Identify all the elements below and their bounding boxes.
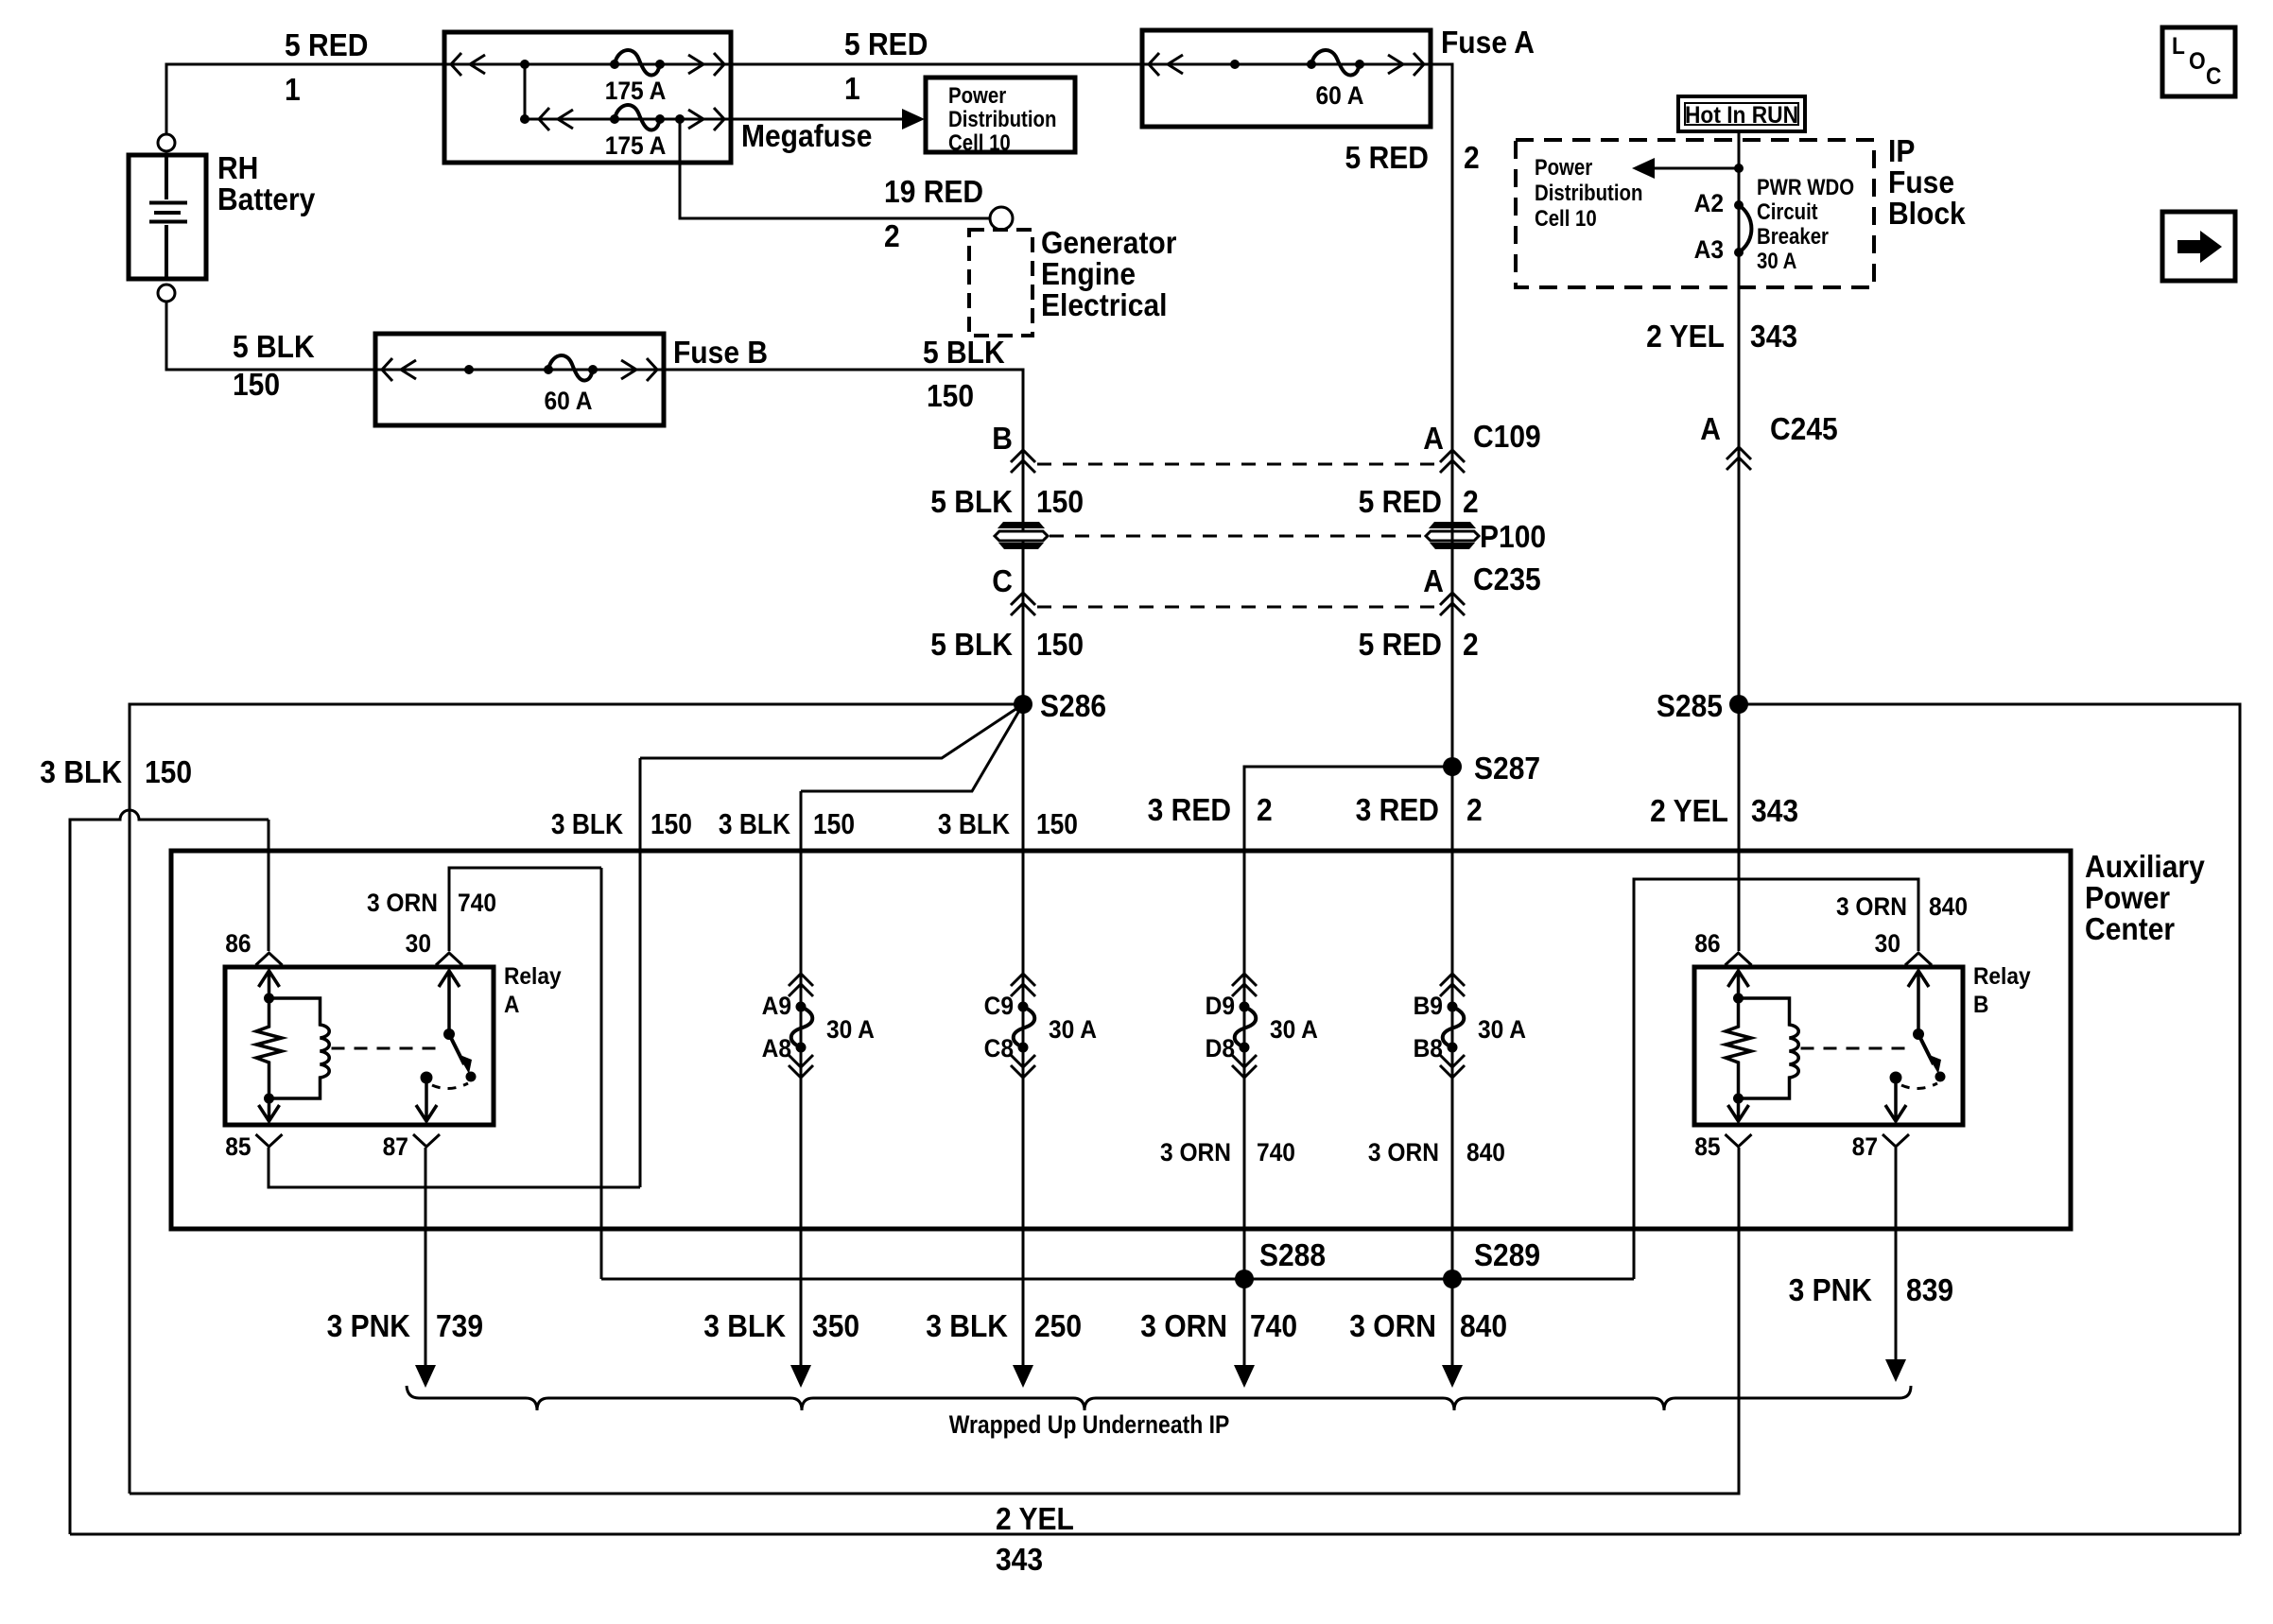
wire relay A pin 85 to branch 1 — [269, 1148, 640, 1187]
svg-text:5 RED: 5 RED — [285, 27, 368, 63]
megafuse row2 right arrowhead — [688, 110, 703, 129]
Fuse A internal wire — [1142, 63, 1431, 66]
svg-text:150: 150 — [1036, 484, 1084, 520]
svg-text:3 BLK: 3 BLK — [551, 808, 623, 840]
svg-text:B8: B8 — [1414, 1035, 1443, 1063]
Fuse B internal wire — [375, 369, 664, 371]
grommet P100 dashed tie — [1050, 535, 1424, 538]
svg-text:A3: A3 — [1694, 236, 1724, 264]
megafuse row1 right arrowhead — [688, 55, 703, 74]
connector C109 pin B caret — [1011, 450, 1035, 473]
relay B switch dashed throw arc — [1901, 1083, 1937, 1089]
svg-text:3 BLK: 3 BLK — [40, 754, 122, 790]
IP junction dot — [1734, 164, 1744, 173]
svg-text:150: 150 — [813, 808, 855, 840]
svg-text:839: 839 — [1906, 1272, 1953, 1308]
Fuse B left caret — [382, 358, 392, 381]
battery symbol — [149, 155, 187, 279]
svg-text:1: 1 — [285, 72, 301, 108]
wire 3 ORN 740 output — [1243, 1279, 1246, 1371]
svg-text:19 RED: 19 RED — [884, 174, 983, 210]
svg-text:5 RED: 5 RED — [1359, 484, 1442, 520]
relay B resistor — [1726, 998, 1751, 1098]
connector C235 pin C caret — [1011, 593, 1035, 615]
svg-text:3 ORN: 3 ORN — [1368, 1139, 1439, 1166]
Fuse B box — [375, 334, 664, 425]
battery positive terminal — [158, 134, 175, 151]
svg-text:5 RED: 5 RED — [1345, 140, 1429, 176]
arrowhead 3 PNK 739 — [415, 1365, 436, 1388]
relay B coil — [1739, 998, 1799, 1098]
wire 2 YEL to relay B pin 86 — [1738, 704, 1741, 951]
arrowhead to power distribution (IP) — [1632, 158, 1655, 179]
arrowhead 3 BLK 350 — [790, 1365, 811, 1388]
Fuse A left caret — [1149, 53, 1159, 76]
Fuse A junction — [1230, 60, 1240, 69]
megafuse row2 left arrowhead — [558, 110, 573, 129]
svg-text:A: A — [1700, 411, 1721, 447]
svg-text:S287: S287 — [1474, 751, 1540, 786]
svg-text:30 A: 30 A — [1478, 1016, 1526, 1044]
connector C109 pin A caret — [1440, 450, 1465, 473]
connector C235 dashed tie — [1037, 606, 1438, 609]
svg-text:5 BLK: 5 BLK — [923, 335, 1005, 371]
relay A switch common contact — [421, 1072, 433, 1084]
battery negative terminal — [158, 285, 175, 302]
Fuse A right arrowhead — [1388, 55, 1403, 74]
wire 3 ORN 740 to relay A pin 30 — [449, 868, 601, 951]
svg-text:85: 85 — [225, 1133, 251, 1161]
svg-text:175 A: 175 A — [605, 78, 667, 105]
svg-text:150: 150 — [927, 378, 974, 414]
arrowhead 3 ORN 740 — [1234, 1365, 1255, 1388]
svg-text:B: B — [992, 421, 1013, 457]
svg-text:30: 30 — [1875, 930, 1900, 958]
arrow reference box — [2162, 212, 2235, 281]
svg-text:D9: D9 — [1206, 993, 1235, 1020]
svg-text:Relay: Relay — [1973, 963, 2031, 990]
relay B pin 87 caret — [1883, 1134, 1909, 1147]
svg-text:Megafuse: Megafuse — [741, 118, 872, 154]
svg-text:B: B — [1973, 992, 1988, 1018]
megafuse fuse 1 175 A — [610, 50, 665, 76]
wire battery positive to megafuse — [166, 64, 444, 134]
svg-text:C8: C8 — [984, 1035, 1014, 1063]
megafuse row1 junction — [520, 60, 529, 69]
Auxiliary Power Center box — [171, 851, 2071, 1229]
svg-text:840: 840 — [1466, 1139, 1505, 1166]
wire 5 RED 2 from Fuse A — [1431, 64, 1452, 448]
svg-text:C: C — [2206, 63, 2221, 90]
Fuse A right caret — [1414, 53, 1424, 76]
svg-text:250: 250 — [1034, 1308, 1082, 1344]
svg-text:Fuse A: Fuse A — [1441, 25, 1535, 60]
relay B pin 30 caret — [1905, 953, 1932, 965]
Fuse A box — [1142, 30, 1431, 127]
relay B box — [1694, 967, 1963, 1125]
svg-text:739: 739 — [436, 1308, 483, 1344]
megafuse internal tie wire — [524, 64, 527, 119]
wire bottom rail 2 YEL — [70, 1533, 2240, 1536]
generator terminal ring — [990, 207, 1013, 230]
svg-text:30: 30 — [406, 930, 431, 958]
svg-text:740: 740 — [458, 890, 496, 917]
relay B pin 87 arrow — [1885, 1078, 1906, 1121]
breaker terminal A2 — [1734, 200, 1744, 210]
svg-text:A2: A2 — [1694, 190, 1724, 217]
circuit breaker C9/C8 30 A — [984, 974, 1097, 1078]
svg-text:3 ORN: 3 ORN — [1349, 1308, 1436, 1344]
svg-text:S288: S288 — [1259, 1237, 1326, 1273]
relay B coil-switch dashed link — [1801, 1047, 1908, 1050]
svg-text:2: 2 — [1466, 792, 1483, 828]
arrow reference glyph — [2178, 231, 2222, 263]
svg-text:2: 2 — [884, 218, 900, 254]
splice S287 — [1443, 757, 1462, 776]
relay A pin 87 arrow — [416, 1078, 437, 1121]
svg-text:P100: P100 — [1480, 519, 1546, 555]
wire 5 BLK 150 to S286 — [1022, 605, 1025, 704]
svg-text:C9: C9 — [984, 993, 1014, 1020]
relay A switch arm — [449, 1034, 464, 1064]
megafuse row2 junction right — [675, 114, 685, 124]
Fuse A element 60 A — [1307, 50, 1364, 76]
svg-text:S285: S285 — [1657, 688, 1723, 724]
generator dashed box — [969, 230, 1032, 336]
megafuse row2 right caret — [714, 108, 724, 130]
wire hot in run to circuit breaker — [1738, 131, 1741, 448]
megafuse row1 left caret — [451, 53, 461, 76]
wire relay A pin 87 drop — [425, 1148, 427, 1371]
svg-text:2: 2 — [1463, 627, 1479, 663]
svg-text:A: A — [1423, 563, 1444, 599]
wire 5 RED 2 to S287 — [1451, 605, 1454, 767]
svg-text:2: 2 — [1257, 792, 1273, 828]
arrowhead 3 BLK 250 — [1013, 1365, 1033, 1388]
svg-text:85: 85 — [1694, 1133, 1720, 1161]
wire megafuse to Power Distribution — [731, 118, 908, 121]
svg-text:3 ORN: 3 ORN — [367, 890, 438, 917]
svg-text:5 BLK: 5 BLK — [233, 329, 315, 365]
svg-text:60 A: 60 A — [544, 388, 592, 415]
arrowhead 3 ORN 840 — [1442, 1365, 1463, 1388]
relay B pin 86 caret — [1726, 953, 1752, 965]
megafuse row2 wire — [525, 118, 731, 121]
svg-text:3 ORN: 3 ORN — [1140, 1308, 1227, 1344]
relay A coil-switch dashed link — [332, 1047, 439, 1050]
Fuse B right arrowhead — [621, 360, 636, 379]
svg-text:5 RED: 5 RED — [1359, 627, 1442, 663]
wire 5 RED 1 megafuse to Fuse A — [731, 63, 1142, 66]
relay A pin 87 caret — [413, 1134, 440, 1147]
svg-text:Fuse B: Fuse B — [673, 335, 768, 371]
svg-text:740: 740 — [1250, 1308, 1297, 1344]
svg-text:343: 343 — [1751, 793, 1798, 829]
svg-text:5 RED: 5 RED — [844, 26, 928, 62]
svg-text:Hot In RUN: Hot In RUN — [1685, 102, 1798, 129]
svg-text:350: 350 — [812, 1308, 859, 1344]
PWR WDO circuit breaker arc — [1739, 205, 1751, 252]
svg-text:60 A: 60 A — [1315, 82, 1363, 110]
relay B switch common contact — [1890, 1072, 1902, 1084]
grommet P100 left — [995, 522, 1048, 549]
svg-text:2 YEL: 2 YEL — [1650, 793, 1728, 829]
Hot In RUN box — [1678, 96, 1805, 131]
wire 3 BLK 250 drop (C9 column) — [1022, 704, 1025, 1371]
svg-text:150: 150 — [145, 754, 192, 790]
megafuse row2 left caret — [539, 108, 549, 130]
arrowhead into Power Distribution — [902, 109, 925, 130]
svg-text:30 A: 30 A — [826, 1016, 875, 1044]
svg-text:A: A — [1423, 421, 1444, 457]
svg-text:840: 840 — [1460, 1308, 1507, 1344]
diagonal S286 to 3 BLK branch 2 — [801, 704, 1023, 791]
svg-text:3 ORN: 3 ORN — [1836, 893, 1907, 921]
relay A pin 85 caret — [256, 1134, 283, 1147]
svg-text:30 A: 30 A — [1270, 1016, 1318, 1044]
svg-text:150: 150 — [1036, 627, 1084, 663]
svg-text:87: 87 — [383, 1133, 408, 1161]
wire 19 RED 2 to generator — [680, 119, 989, 218]
wire 5 BLK 150 from Fuse B — [664, 370, 1023, 448]
grommet P100 right — [1426, 522, 1479, 549]
svg-text:150: 150 — [233, 367, 280, 403]
svg-text:Relay: Relay — [504, 963, 562, 990]
relay A switch pin 30 arrow — [439, 971, 460, 1034]
wire relay B pin 87 drop — [1895, 1148, 1898, 1365]
svg-text:S289: S289 — [1474, 1237, 1540, 1273]
relay B switch arm — [1918, 1034, 1934, 1064]
svg-text:1: 1 — [844, 71, 860, 107]
wire 3 ORN 740 riser (left) — [600, 868, 603, 1279]
wire 3 ORN 840 output — [1451, 1279, 1454, 1371]
relay A coil pin 85 arrow — [259, 1098, 280, 1121]
wire 2 YEL left drop with hop — [70, 810, 269, 1534]
svg-text:O: O — [2189, 48, 2206, 75]
circuit breaker A9/A8 30 A — [762, 974, 875, 1078]
relay A pin 30 caret — [436, 953, 462, 965]
circuit breaker B9/B8 30 A — [1414, 974, 1526, 1078]
splice S285 — [1729, 695, 1748, 714]
svg-text:2 YEL: 2 YEL — [996, 1501, 1074, 1537]
svg-text:S286: S286 — [1040, 688, 1106, 724]
svg-text:343: 343 — [1750, 319, 1797, 354]
connector C235 pin A caret — [1440, 593, 1465, 615]
svg-text:Battery: Battery — [217, 181, 316, 217]
relay A pin 86 caret — [256, 953, 283, 965]
svg-text:343: 343 — [996, 1542, 1043, 1578]
battery RH box — [129, 155, 206, 279]
megafuse fuse 2 175 A — [610, 105, 665, 130]
connector C109 dashed tie — [1037, 463, 1438, 466]
wire splice rail S288-S289 — [601, 1278, 1634, 1281]
svg-text:3 BLK: 3 BLK — [719, 808, 790, 840]
svg-text:A9: A9 — [762, 993, 791, 1020]
svg-text:C109: C109 — [1473, 419, 1541, 455]
Fuse B left arrowhead — [401, 360, 416, 379]
relay A box — [225, 967, 494, 1125]
breaker terminal A3 — [1734, 248, 1744, 257]
circuit breaker D9/D8 30 A — [1206, 974, 1318, 1078]
svg-text:86: 86 — [225, 930, 251, 958]
megafuse row2 junction left — [520, 114, 529, 124]
arrowhead 3 PNK 839 — [1885, 1359, 1906, 1382]
relay B pin 85 caret — [1726, 1134, 1752, 1147]
svg-text:Wrapped Up Underneath IP: Wrapped Up Underneath IP — [949, 1410, 1230, 1439]
svg-text:A: A — [504, 992, 519, 1018]
wire S286 to left frame — [130, 704, 1023, 1494]
wire 5 RED 2 A to A — [1451, 448, 1454, 605]
IP fuse block dashed box — [1516, 140, 1874, 287]
svg-text:3 RED: 3 RED — [1148, 792, 1231, 828]
Fuse B junction — [464, 365, 474, 374]
svg-text:3 BLK: 3 BLK — [938, 808, 1010, 840]
svg-text:86: 86 — [1694, 930, 1720, 958]
megafuse row1 right caret — [714, 53, 724, 76]
megafuse row1 wire — [444, 63, 731, 66]
svg-text:150: 150 — [1036, 808, 1078, 840]
connector C245 caret — [1726, 447, 1751, 470]
svg-text:87: 87 — [1852, 1133, 1878, 1161]
svg-text:740: 740 — [1257, 1139, 1295, 1166]
svg-text:L: L — [2172, 33, 2185, 60]
svg-text:3 RED: 3 RED — [1356, 792, 1439, 828]
svg-text:C235: C235 — [1473, 561, 1541, 597]
svg-text:840: 840 — [1929, 893, 1968, 921]
wire 5 BLK 150 B to C — [1022, 448, 1025, 605]
splice S286 — [1014, 695, 1032, 714]
svg-text:2: 2 — [1463, 484, 1479, 520]
svg-text:2 YEL: 2 YEL — [1646, 319, 1725, 354]
splice S288 — [1235, 1270, 1254, 1288]
svg-text:5 BLK: 5 BLK — [930, 484, 1013, 520]
wire battery negative to Fuse B — [166, 302, 375, 370]
svg-text:C245: C245 — [1770, 411, 1838, 447]
svg-text:3 ORN: 3 ORN — [1160, 1139, 1231, 1166]
svg-text:A8: A8 — [762, 1035, 791, 1063]
Fuse A left arrowhead — [1168, 55, 1183, 74]
svg-text:3 BLK: 3 BLK — [703, 1308, 786, 1344]
diagonal S286 to 3 BLK branch 1 — [640, 704, 1023, 758]
wire 3 ORN 840 riser (right) — [1634, 879, 1918, 1279]
megafuse box — [444, 32, 731, 163]
wire 3 BLK branch 2 drop (A9 column) — [800, 791, 803, 1371]
svg-text:150: 150 — [651, 808, 692, 840]
megafuse row1 left arrowhead — [470, 55, 485, 74]
svg-text:B9: B9 — [1414, 993, 1443, 1020]
svg-text:175 A: 175 A — [605, 132, 667, 160]
wire relay B pin 85 to bottom rail — [130, 1148, 1739, 1494]
svg-text:3 PNK: 3 PNK — [327, 1308, 411, 1344]
svg-text:30 A: 30 A — [1049, 1016, 1097, 1044]
splice S289 — [1443, 1270, 1462, 1288]
relay B coil pin 85 arrow — [1728, 1098, 1749, 1121]
svg-text:D8: D8 — [1206, 1035, 1235, 1063]
relay B coil pin 86 arrow — [1728, 971, 1749, 998]
wire relay A pin 86 drop — [268, 820, 270, 951]
svg-text:5 BLK: 5 BLK — [930, 627, 1013, 663]
relay A switch dashed throw arc — [432, 1083, 468, 1089]
relay B switch pin 30 arrow — [1908, 971, 1929, 1034]
Fuse B right caret — [647, 358, 657, 381]
svg-text:3 PNK: 3 PNK — [1789, 1272, 1873, 1308]
wire to power distribution cell 10 (IP) — [1655, 167, 1739, 170]
svg-text:C: C — [992, 563, 1013, 599]
relay A coil pin 86 arrow — [259, 971, 280, 998]
LOC reference box — [2162, 27, 2235, 96]
Fuse B element 60 A — [544, 355, 598, 381]
Power Distribution Cell 10 box — [926, 78, 1075, 152]
wire S285 to right frame — [1739, 704, 2240, 1534]
wire 2 YEL 343 to S285 — [1738, 448, 1741, 704]
wire S287 to D9 column — [1244, 767, 1452, 1279]
relay A resistor — [256, 998, 282, 1098]
relay A coil — [269, 998, 330, 1098]
brace wrapped up underneath IP — [407, 1386, 1911, 1410]
svg-text:2: 2 — [1464, 140, 1480, 176]
svg-text:3 BLK: 3 BLK — [926, 1308, 1008, 1344]
wire 3 RED 2 B9 column — [1451, 767, 1454, 1279]
wire 3 BLK branch 1 drop — [639, 758, 642, 1187]
